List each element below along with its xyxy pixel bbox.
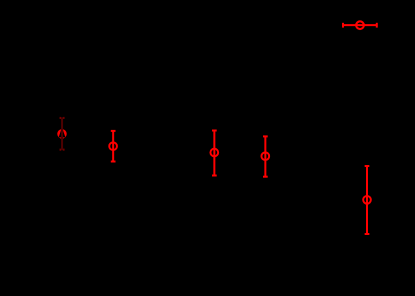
data point 1 errorbar (dark, overlapped by black series) [57, 117, 67, 151]
data point 5 errorbar [363, 166, 371, 234]
data point 4 errorbar [261, 136, 269, 176]
legend marker (red horizontal errorbar with hollow circle) [343, 21, 377, 29]
data point 2 errorbar [109, 131, 117, 162]
data point 3 errorbar [210, 131, 218, 176]
